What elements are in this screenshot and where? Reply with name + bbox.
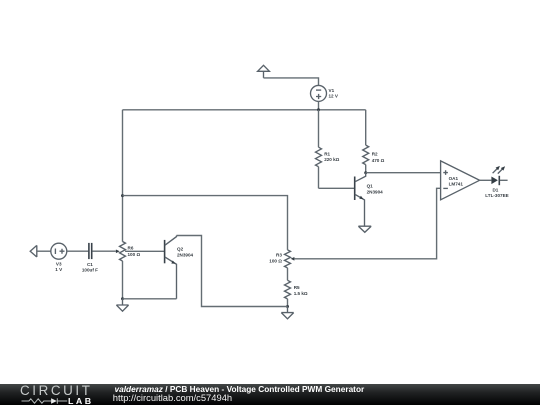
wire node to op-amp +: [366, 172, 441, 174]
wire R1 to Q1 base: [319, 187, 355, 189]
svg-text:2N3904: 2N3904: [367, 189, 384, 194]
wire top bus: [123, 109, 366, 111]
resistor R5: [285, 280, 308, 306]
ground left of V3: [30, 245, 37, 257]
svg-text:R3: R3: [276, 253, 282, 258]
wire left branch down: [122, 110, 124, 242]
svg-text:100 Ω: 100 Ω: [269, 259, 282, 264]
svg-text:Q2: Q2: [177, 247, 184, 252]
wire vcc to V1: [264, 78, 319, 86]
footer bar: [0, 384, 540, 405]
svg-text:OA1: OA1: [449, 176, 459, 181]
wire V3 to C1: [67, 250, 89, 252]
svg-text:LTL-307EE: LTL-307EE: [485, 193, 508, 198]
svg-text:100uf F: 100uf F: [82, 267, 98, 272]
ground under R5: [281, 307, 293, 319]
svg-text:D1: D1: [492, 187, 498, 192]
svg-text:LM741: LM741: [449, 181, 464, 186]
node dot R6 bottom: [121, 297, 124, 300]
wiper arrowhead into R6: [116, 250, 120, 254]
ground under Q1: [358, 226, 371, 232]
potentiometer R3: [269, 250, 290, 280]
svg-text:V3: V3: [56, 262, 62, 267]
circuitlab logo text: [20, 384, 93, 397]
wire R6 bottom to Q2 emitter: [123, 298, 177, 300]
wire tee to R3 top: [123, 196, 288, 250]
svg-text:R1: R1: [324, 151, 330, 156]
svg-text:R5: R5: [294, 285, 300, 290]
wire op-amp minus feedback: [294, 188, 440, 258]
node dot V1-bus: [317, 108, 320, 111]
wire V1 to bus: [318, 101, 320, 109]
svg-text:1.5 kΩ: 1.5 kΩ: [294, 291, 308, 296]
wire Q2 collector run to R5 node: [177, 236, 288, 307]
footer url text: [113, 392, 232, 403]
transistor Q1 2N3904: [355, 173, 383, 227]
svg-text:V1: V1: [329, 88, 335, 93]
capacitor C1: [82, 243, 98, 272]
node dot R5 bottom: [286, 305, 289, 308]
wire op-amp output to LED: [480, 179, 492, 181]
potentiometer R6: [120, 242, 141, 299]
svg-text:12 V: 12 V: [329, 93, 339, 98]
svg-text:R2: R2: [372, 151, 378, 156]
led D1 LTL-307EE: [485, 166, 508, 198]
svg-text:1 V: 1 V: [55, 267, 63, 272]
svg-text:R6: R6: [128, 246, 134, 251]
svg-text:100 Ω: 100 Ω: [128, 252, 141, 257]
svg-text:2N3904: 2N3904: [177, 253, 194, 258]
svg-text:Q1: Q1: [367, 183, 374, 188]
resistor R1: [316, 110, 340, 189]
wire R6 wiper to Q2 base: [125, 250, 164, 252]
svg-text:220 kΩ: 220 kΩ: [324, 157, 339, 162]
svg-text:C1: C1: [87, 262, 93, 267]
transistor Q2 2N3904: [165, 236, 194, 299]
wire C1 to R6 wiper: [92, 250, 116, 252]
node dot R3 tee: [121, 194, 124, 197]
voltage source V3: [51, 243, 67, 272]
node dot R2 / Q1 collector: [364, 171, 367, 174]
ground under R6: [116, 299, 128, 311]
voltage source V1: [311, 85, 339, 101]
op-amp U1 OA1 LM741: [441, 161, 480, 200]
vcc arrow power symbol: [258, 65, 270, 78]
wiper arrowhead into R3: [291, 257, 295, 261]
wire ground to V3: [37, 250, 51, 252]
footer title text: [115, 384, 365, 394]
resistor R2: [363, 110, 385, 173]
svg-text:470 Ω: 470 Ω: [372, 158, 385, 163]
